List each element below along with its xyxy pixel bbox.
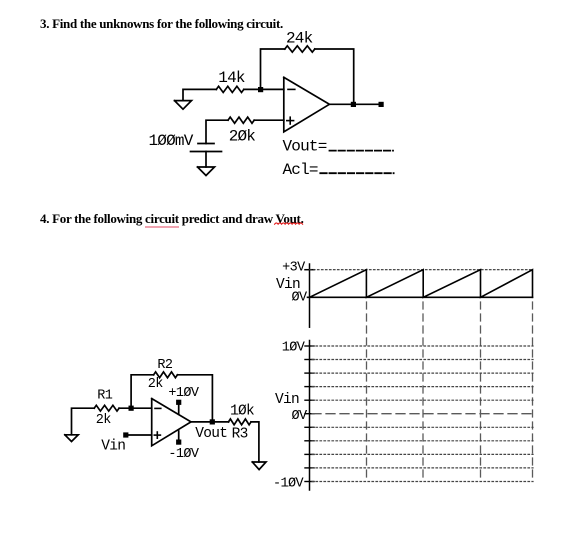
problem 4 heading: [40, 212, 304, 225]
dashed 0V line: [312, 413, 533, 415]
svg-text:R3: R3: [232, 426, 248, 442]
svg-text:-1ØV: -1ØV: [273, 476, 305, 491]
wire: feedback left vertical and top: [131, 375, 154, 408]
wire: op-amp output to R3: [191, 421, 229, 423]
resistor R1 zigzag: [94, 405, 119, 411]
svg-text:2k: 2k: [148, 377, 164, 392]
svg-text:1Øk: 1Øk: [230, 404, 254, 420]
wire: feedback top right + right vertical to output: [315, 49, 354, 104]
red spellcheck squiggle under Vout.: [275, 223, 303, 224]
wire: input from ground corner to op-amp inverting input: [183, 89, 216, 100]
dashed vertical gridline 2: [422, 302, 424, 482]
op-amp U2 triangle: [152, 399, 191, 446]
dashed vertical gridline 3: [480, 302, 482, 482]
wire: battery to ground: [205, 152, 207, 168]
dashed vertical gridline 4: [532, 302, 534, 482]
sawtooth axis: [309, 264, 311, 327]
svg-text:R1: R1: [97, 388, 113, 403]
+3V tick: [305, 269, 314, 271]
ground symbol (R3): [252, 462, 266, 470]
resistor 20k zigzag: [228, 117, 254, 123]
op-amp U1 minus sign: [288, 88, 295, 90]
wire: op-amp output: [329, 103, 381, 105]
svg-text:Vout: Vout: [195, 426, 227, 442]
node: inverting input junction: [258, 87, 263, 92]
terminal: +V square: [176, 400, 181, 405]
wire: 100mV source up to 20k: [206, 120, 228, 143]
op-amp U2 plus sign: [154, 432, 160, 438]
svg-text:Acl=: Acl=: [283, 161, 318, 179]
wire: 20k to op-amp plus: [254, 119, 284, 121]
svg-text:2k: 2k: [96, 413, 112, 428]
dotted +3V level line: [310, 269, 533, 271]
wire: feedback right vertical down to output: [177, 375, 212, 422]
battery source 100mV top plate: [198, 143, 214, 145]
problem 3 heading: [40, 17, 283, 30]
svg-text:1ØV: 1ØV: [282, 341, 306, 356]
terminal: Vin square: [123, 432, 128, 437]
svg-text:ØV: ØV: [291, 409, 308, 424]
+V pin wire: [178, 404, 180, 414]
svg-text:1ØØmV: 1ØØmV: [149, 132, 194, 150]
resistor 14k zigzag: [216, 86, 244, 92]
resistor R3 zigzag: [229, 419, 252, 425]
svg-text:24k: 24k: [286, 30, 313, 48]
wire: R1 to op-amp: [119, 407, 152, 409]
node: output junction: [351, 102, 356, 107]
resistor R2 zigzag: [154, 372, 178, 378]
wire: Vin to op-amp plus: [128, 434, 151, 436]
ground symbol (bottom left): [65, 435, 78, 442]
blank line after Acl=: [320, 172, 393, 174]
svg-text:Vout=: Vout=: [283, 138, 327, 156]
svg-text:+1ØV: +1ØV: [168, 386, 200, 401]
blank line after Vout=: [330, 150, 394, 152]
resistor 24k zigzag: [285, 46, 315, 52]
wire: 14k to op-amp minus: [244, 88, 284, 90]
battery source 100mV bottom plate: [191, 151, 222, 153]
svg-text:ØV: ØV: [291, 290, 308, 305]
op-amp U1 triangle: [284, 77, 330, 132]
wire: from left ground corner through R1 to op-amp minus: [72, 408, 95, 435]
op-amp U1 plus sign: [287, 117, 294, 124]
sawtooth waveform Vin: [310, 270, 533, 298]
svg-text:14k: 14k: [218, 69, 245, 87]
op-amp U2 minus sign: [155, 407, 161, 409]
node: output junction: [210, 419, 215, 424]
-V pin wire: [178, 431, 180, 440]
svg-text:R2: R2: [157, 358, 173, 373]
svg-text:-1ØV: -1ØV: [168, 447, 200, 462]
svg-text:+3V: +3V: [282, 260, 306, 275]
terminal: output end square: [379, 102, 384, 107]
axis ticks every 2V: [305, 346, 314, 482]
wire: R3 down to ground: [251, 422, 259, 462]
lower graph axis: [309, 341, 311, 491]
terminal: -V square: [176, 440, 181, 445]
wire: feedback left vertical: [261, 49, 285, 89]
svg-text:Vin: Vin: [101, 439, 125, 455]
ground symbol (left, open arrow): [175, 101, 192, 110]
ground symbol (battery): [198, 167, 215, 176]
svg-text:2Øk: 2Øk: [229, 127, 256, 145]
svg-text:Vin: Vin: [275, 392, 299, 408]
dashed vertical gridline 1: [366, 302, 368, 482]
sawtooth baseline: [308, 296, 533, 298]
node: inverting junction: [129, 406, 134, 411]
dotted horizontal gridlines: [312, 346, 533, 482]
